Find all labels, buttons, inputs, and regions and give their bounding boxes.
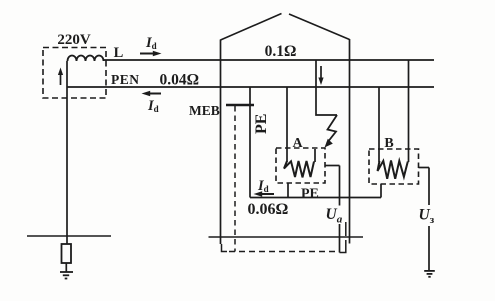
transformer winding T (coil) xyxy=(68,56,104,62)
wire: B case tap for U3 xyxy=(419,167,430,169)
current arrow right (Id in L) xyxy=(140,51,162,57)
Ua measurement line xyxy=(339,166,341,253)
wire: PEN conductor xyxy=(67,86,434,88)
ground symbol (reference earth at B) xyxy=(424,271,435,277)
winding left terminal wire xyxy=(66,61,68,87)
svg-text:PE: PE xyxy=(301,187,319,202)
resistor RB (appliance B load) xyxy=(378,161,408,179)
resistor RA (appliance A load) xyxy=(284,161,314,177)
svg-text:Id: Id xyxy=(147,98,159,114)
grounding resistor (transformer working earth) xyxy=(62,244,72,263)
svg-text:Id: Id xyxy=(145,35,157,51)
U3 measurement line xyxy=(428,168,430,271)
wire: PE conductor line xyxy=(250,197,381,199)
building left wall xyxy=(220,40,222,245)
svg-text:0.1Ω: 0.1Ω xyxy=(265,43,297,60)
wire: PE riser from PEN to PE line xyxy=(249,87,251,198)
svg-text:PE: PE xyxy=(253,114,270,134)
earth surface line (at transformer) xyxy=(27,235,111,237)
transformer enclosure (dashed box) xyxy=(43,48,106,99)
building right wall xyxy=(349,39,351,244)
wire: A case to PE drop xyxy=(287,183,289,198)
wire: A case tap for Ua xyxy=(325,165,340,167)
svg-text:MEB: MEB xyxy=(189,103,220,118)
wire: appliance A right lead from L (broken at fault) xyxy=(316,60,337,115)
foundation outline left corner xyxy=(222,244,228,252)
svg-text:220V: 220V xyxy=(57,32,91,48)
current arrow left (Id in PEN) xyxy=(142,91,162,97)
wire: line conductor L xyxy=(104,59,435,61)
svg-text:PEN: PEN xyxy=(111,72,140,87)
wire: transformer earthing conductor xyxy=(66,87,68,244)
wire: appliance B left lead from PEN xyxy=(378,87,380,162)
appliance B dashed box xyxy=(369,149,419,184)
foundation outline bottom (dashed) xyxy=(229,251,340,253)
MEB terminal bar xyxy=(226,104,254,107)
foundation earth electrode xyxy=(209,236,364,238)
ground symbol (transformer earth) xyxy=(60,272,73,279)
wire: appliance A left lead from PEN xyxy=(286,87,288,162)
svg-text:Uз: Uз xyxy=(419,207,435,227)
svg-text:0.06Ω: 0.06Ω xyxy=(248,201,289,218)
foundation outline right corner xyxy=(340,222,346,253)
wire: B case to PE drop xyxy=(380,184,382,198)
svg-text:B: B xyxy=(384,136,393,151)
fault lightning arrow xyxy=(325,115,338,148)
wire: resistor to ground xyxy=(65,263,67,272)
svg-text:Id: Id xyxy=(257,178,269,194)
current arrow left (Id in PE) xyxy=(254,191,275,197)
svg-text:0.04Ω: 0.04Ω xyxy=(160,72,200,89)
dashed bonding drop from MEB to foundation xyxy=(234,106,236,252)
svg-text:Ua: Ua xyxy=(326,206,343,226)
building roof outline xyxy=(221,14,350,41)
appliance A dashed box xyxy=(276,148,325,183)
up arrow (source EMF direction) xyxy=(58,68,63,86)
current arrow down (fault current into installation) xyxy=(318,66,323,85)
svg-text:A: A xyxy=(292,136,303,151)
wire: appliance B right lead from L xyxy=(408,60,410,162)
wire: A inner right lead xyxy=(314,149,316,162)
svg-text:L: L xyxy=(114,45,124,61)
